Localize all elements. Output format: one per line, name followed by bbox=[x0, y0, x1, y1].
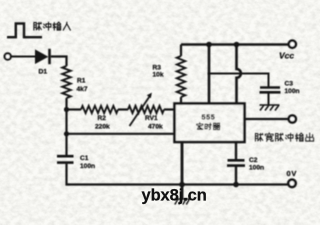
potentiometer RV1 (zigzag + arrow) bbox=[128, 93, 164, 126]
wire: rail to 555 pin 8 bbox=[208, 45, 211, 104]
label D1 bbox=[39, 69, 48, 76]
resistor R2 bbox=[81, 106, 118, 113]
label C1 100n bbox=[80, 155, 95, 170]
ground rail 0V net bbox=[67, 183, 289, 185]
label R3 10k bbox=[153, 65, 164, 79]
Vcc terminal bbox=[289, 41, 296, 48]
label 0V bbox=[287, 169, 298, 178]
wire: C2 to rail bbox=[235, 167, 237, 185]
0V terminal bbox=[288, 180, 295, 187]
label C2 100n bbox=[249, 157, 264, 172]
555 timer U1 box bbox=[175, 104, 245, 143]
resistor R1 bbox=[62, 66, 70, 98]
top rail Vcc net bbox=[181, 43, 289, 45]
junction dot pin 4 bbox=[234, 42, 240, 48]
diode D1 bbox=[36, 49, 50, 64]
junction dot C2 on rail bbox=[233, 182, 239, 188]
wire: C1 to ground rail (corner) bbox=[67, 164, 71, 185]
resistor R3 bbox=[177, 45, 185, 104]
label R1 4k7 bbox=[77, 78, 88, 94]
wire: node B to 555 pin 2 (trigger) bbox=[67, 133, 176, 135]
capacitor C2 bbox=[227, 160, 245, 165]
output terminal bbox=[289, 115, 296, 122]
label R2 220k bbox=[95, 115, 110, 131]
label: 脉宽脉冲输出 (pulse width output) bbox=[255, 133, 313, 142]
wire: R2 to RV1 bbox=[118, 108, 128, 110]
junction dot pin1 on rail bbox=[179, 182, 185, 188]
wire: diode to R1 top (corner) bbox=[51, 57, 67, 67]
node B junction dot bbox=[64, 131, 69, 136]
label: 脉冲输入 (pulse input) bbox=[34, 22, 71, 30]
label RV1 470k bbox=[145, 115, 163, 131]
ground symbol below rail bbox=[175, 199, 190, 205]
capacitor C1 bbox=[57, 156, 74, 162]
wire: 555 pin 3 output bbox=[245, 118, 289, 120]
wire: input terminal to diode bbox=[11, 56, 36, 58]
label C3 100n bbox=[285, 81, 300, 95]
input terminal bbox=[5, 53, 11, 59]
wire: node A to R2 bbox=[67, 108, 82, 110]
label 555 bbox=[202, 113, 216, 122]
wire: pin5 control line to C3 bbox=[208, 74, 269, 87]
watermark ybx8j.cn bbox=[142, 187, 207, 205]
wire: node B down to C1 bbox=[65, 134, 67, 155]
wire: node A down to node B bbox=[65, 110, 67, 134]
junction dot pin 8 bbox=[206, 42, 212, 48]
label Vcc bbox=[279, 51, 294, 61]
wire: rail to 555 pin 4 (hops over control line) bbox=[237, 45, 241, 104]
wire: 555 pin 1 to ground rail and below bbox=[181, 142, 184, 199]
wire: 555 bottom to C2 bbox=[235, 142, 237, 160]
node A junction dot bbox=[64, 107, 69, 112]
capacitor C3 bbox=[260, 88, 281, 105]
wire: RV1 to 555 pin7/6 bbox=[164, 108, 175, 110]
ground symbol under C3 bbox=[260, 105, 280, 111]
wire: R1 bottom to node A bbox=[65, 98, 67, 110]
pulse input waveform symbol bbox=[7, 24, 42, 38]
label 定时器 (timer) bbox=[197, 123, 220, 130]
